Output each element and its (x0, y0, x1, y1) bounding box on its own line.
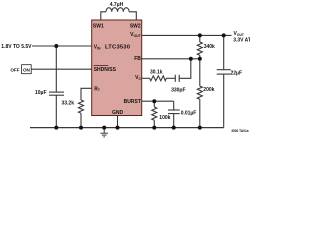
wire VC lead (142, 77, 150, 79)
svg-text:3530 TA01a: 3530 TA01a (231, 129, 249, 133)
resistor R5 100k (152, 107, 157, 120)
resistor R1 340k (197, 42, 202, 55)
capacitor C3 0.01uF (168, 109, 180, 111)
wire 340k top lead (199, 35, 201, 42)
wire VOUT rail (142, 34, 232, 36)
svg-text:BURST: BURST (124, 99, 141, 105)
capacitor C2 330pF (174, 75, 176, 82)
labels (93, 23, 142, 116)
wire 200k bottom lead (199, 99, 201, 127)
wire GND pin (117, 116, 119, 128)
inductor L1 4.7uH (106, 8, 129, 12)
wire 200k top lead (199, 59, 201, 86)
pin label SHDN overline (94, 64, 109, 66)
IC U1 LTC3530 body (92, 20, 142, 116)
svg-text:330pF: 330pF (171, 87, 185, 93)
svg-text:SHDN/SS: SHDN/SS (94, 67, 117, 73)
svg-text:OFF: OFF (10, 68, 19, 73)
svg-text:LTC3530: LTC3530 (105, 44, 130, 50)
wire 0.01uF top lead (173, 101, 175, 110)
wire 10uF bottom branch (55, 95, 57, 127)
svg-text:ON: ON (23, 68, 31, 73)
svg-text:0.01µF: 0.01µF (181, 110, 197, 116)
wire 340k bottom lead (199, 55, 201, 59)
svg-text:VOUT: VOUT (234, 31, 245, 37)
wire SHDN/SS (31, 68, 91, 70)
svg-text:33.2k: 33.2k (61, 100, 74, 106)
ground symbol (100, 128, 108, 137)
resistor R3 30.1k (150, 76, 167, 81)
wire 22uF top lead (223, 35, 225, 69)
resistor R4 33.2k (79, 100, 84, 113)
svg-text:22µF: 22µF (231, 71, 243, 77)
svg-text:10µF: 10µF (35, 90, 47, 96)
wire ground rail (30, 127, 224, 129)
svg-text:4.7µH: 4.7µH (110, 2, 124, 8)
svg-text:1.8V TO 5.5V: 1.8V TO 5.5V (1, 44, 32, 50)
capacitor C4 22uF (217, 69, 231, 71)
wire SW1 lead (101, 12, 106, 20)
svg-text:GND: GND (112, 110, 124, 116)
svg-text:200k: 200k (203, 87, 214, 93)
wire 100k bottom lead (153, 120, 155, 127)
wire 10uF top branch (55, 46, 57, 92)
wire RT lead (81, 88, 92, 100)
wire 0.01uF bottom lead (173, 114, 175, 128)
wire SW2 lead (129, 12, 136, 20)
resistor R2 200k (197, 86, 202, 99)
svg-text:FB: FB (134, 56, 141, 62)
wire BURST lead (142, 100, 174, 102)
wire VIN input (32, 45, 92, 47)
wire comp to FB node (179, 59, 191, 79)
svg-text:100k: 100k (159, 115, 170, 121)
wire RT resistor to rail (80, 113, 82, 127)
svg-text:30.1k: 30.1k (150, 69, 163, 75)
wire 100k top lead (153, 101, 155, 107)
svg-text:SW2: SW2 (130, 23, 141, 29)
capacitor C1 10uF (49, 91, 64, 93)
wire comp RC middle (166, 77, 175, 79)
svg-text:3.3V AT: 3.3V AT (233, 38, 250, 44)
switch ON box (22, 65, 32, 74)
svg-text:340k: 340k (204, 44, 215, 50)
wire 22uF bottom lead (223, 74, 225, 128)
wire FB (142, 58, 200, 60)
node junction dots (54, 33, 225, 129)
svg-text:SW1: SW1 (93, 23, 104, 29)
